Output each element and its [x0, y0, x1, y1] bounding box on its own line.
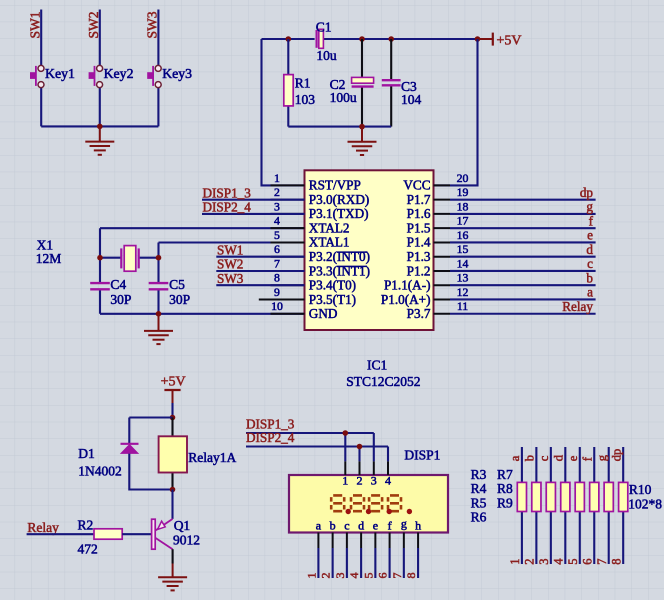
svg-text:10u: 10u: [316, 48, 337, 63]
display pin f stub: [389, 533, 391, 549]
pin 6 stub: [271, 256, 305, 258]
svg-text:6: 6: [274, 242, 280, 256]
svg-text:RST/VPP: RST/VPP: [309, 178, 361, 193]
svg-text:5: 5: [566, 559, 580, 565]
wire +5V to pin20: [434, 39, 478, 185]
power +5V relay: [164, 390, 180, 403]
wire DISP2_4 pin3: [202, 213, 305, 215]
wire crystal left vertical: [99, 228, 101, 314]
svg-text:Key2: Key2: [104, 66, 134, 81]
wire crystal right vertical: [157, 243, 159, 314]
transistor Q1: [152, 519, 173, 549]
display pin 4 stub: [387, 461, 389, 475]
wire SW1 net vertical: [40, 10, 42, 127]
svg-text:P3.0(RXD): P3.0(RXD): [309, 192, 369, 207]
switch SW3: [147, 65, 161, 87]
svg-text:6: 6: [580, 559, 594, 565]
node crystal right junction: [156, 255, 162, 261]
relay coil Relay1A: [159, 418, 187, 490]
svg-text:4: 4: [274, 214, 280, 228]
svg-text:Relay: Relay: [562, 299, 593, 314]
capacitor C1: [317, 29, 324, 48]
svg-text:7: 7: [595, 559, 609, 565]
svg-text:IC1: IC1: [367, 358, 387, 373]
ground crystal: [144, 331, 173, 344]
display pin b stub: [332, 533, 334, 549]
svg-text:P1.7: P1.7: [407, 192, 431, 207]
pin 7 stub: [271, 270, 305, 272]
svg-text:8: 8: [404, 573, 418, 579]
display pin 1 stub: [344, 461, 346, 475]
svg-text:R4: R4: [471, 481, 487, 496]
wire SW3 net vertical: [157, 10, 159, 127]
svg-text:dp: dp: [609, 449, 623, 462]
svg-text:10: 10: [271, 299, 283, 313]
display pin g stub: [403, 533, 405, 549]
wire segment net 5: [374, 548, 376, 578]
wire relay to transistor: [171, 490, 173, 519]
svg-text:Relay: Relay: [27, 520, 59, 535]
svg-text:R8: R8: [497, 481, 513, 496]
wire DISP1_3 bottom: [246, 433, 374, 461]
svg-text:12: 12: [457, 285, 469, 299]
svg-text:GND: GND: [309, 306, 338, 321]
node power ground junction: [359, 124, 365, 130]
capacitor C4: [90, 283, 110, 289]
svg-text:SW1: SW1: [28, 12, 43, 39]
display pin c stub: [346, 533, 348, 549]
display DISP1 body: [289, 475, 448, 533]
svg-text:1: 1: [508, 559, 522, 565]
svg-text:c: c: [587, 256, 593, 271]
svg-text:R2: R2: [78, 518, 94, 533]
svg-text:1: 1: [274, 171, 280, 185]
svg-text:P3.7: P3.7: [407, 306, 431, 321]
svg-text:4: 4: [347, 573, 361, 579]
node crystal left junction: [97, 255, 103, 261]
svg-text:3: 3: [274, 199, 280, 213]
svg-text:dp: dp: [580, 185, 594, 200]
wire net b: [450, 284, 596, 286]
svg-text:Q1: Q1: [174, 518, 191, 533]
wire segment net 4: [360, 548, 362, 578]
svg-text:472: 472: [78, 542, 98, 557]
svg-text:R5: R5: [471, 495, 487, 510]
svg-text:2: 2: [522, 559, 536, 565]
wire net Relay: [450, 313, 596, 315]
node relay top junction: [170, 415, 176, 421]
svg-text:d: d: [358, 519, 364, 533]
svg-text:C1: C1: [316, 20, 332, 35]
svg-text:SW1: SW1: [217, 242, 243, 257]
svg-text:2: 2: [319, 573, 333, 579]
svg-text:2: 2: [274, 185, 280, 199]
svg-text:R1: R1: [295, 76, 311, 91]
wire resistor column 5: [579, 447, 581, 564]
svg-text:100u: 100u: [330, 90, 357, 105]
wire net f: [450, 227, 596, 229]
svg-text:102*8: 102*8: [628, 497, 662, 512]
node key bus junction: [97, 124, 103, 130]
node relay bottom junction: [170, 487, 176, 493]
wire net a: [450, 298, 596, 300]
svg-text:d: d: [586, 242, 593, 257]
svg-text:SW3: SW3: [217, 271, 244, 286]
wire resistor column 7: [608, 447, 610, 564]
svg-text:c: c: [344, 519, 349, 533]
wire SW2 net vertical: [99, 10, 101, 127]
svg-text:1: 1: [305, 573, 319, 579]
svg-text:SW2: SW2: [86, 12, 101, 39]
svg-text:R7: R7: [497, 467, 513, 482]
resistor R4: [532, 482, 541, 511]
wire segment net 7: [403, 548, 405, 578]
pin 17 stub: [434, 227, 451, 229]
wire +5V rail: [262, 38, 478, 40]
svg-text:e: e: [566, 455, 580, 461]
svg-text:R3: R3: [471, 467, 487, 482]
overline INT1: [337, 265, 367, 267]
wire +5V down: [171, 403, 173, 418]
svg-text:DISP2_4: DISP2_4: [246, 430, 295, 445]
wire segment net 1: [317, 548, 319, 578]
svg-text:3: 3: [333, 573, 347, 579]
switch SW2: [89, 65, 103, 87]
svg-text:D1: D1: [78, 446, 95, 461]
svg-text:4: 4: [385, 474, 391, 488]
svg-text:P1.3: P1.3: [407, 249, 431, 264]
wire resistor column 6: [593, 447, 595, 564]
svg-text:5: 5: [274, 228, 280, 242]
pin 5 stub: [271, 241, 305, 243]
wire resistor column 1: [521, 447, 523, 564]
pin 12 stub: [434, 298, 451, 300]
svg-text:30P: 30P: [110, 292, 131, 307]
display pin h stub: [417, 533, 419, 549]
svg-text:12M: 12M: [36, 251, 62, 266]
svg-text:P1.5: P1.5: [407, 220, 431, 235]
svg-text:20: 20: [457, 171, 469, 185]
svg-text:a: a: [508, 455, 522, 461]
pin 3 stub: [271, 213, 305, 215]
svg-text:P3.2(INT0): P3.2(INT0): [309, 249, 370, 264]
svg-text:e: e: [587, 228, 593, 243]
switch SW1: [30, 65, 44, 87]
svg-text:1N4002: 1N4002: [78, 464, 122, 479]
svg-text:f: f: [589, 213, 594, 228]
svg-text:11: 11: [457, 299, 468, 313]
svg-text:g: g: [401, 517, 407, 531]
pin 13 stub: [434, 284, 451, 286]
svg-text:h: h: [415, 519, 421, 533]
wire ground stem transistor: [172, 564, 174, 578]
op IC1 body: [305, 170, 434, 330]
svg-text:c: c: [537, 455, 551, 461]
wire ground stem crystal: [158, 314, 160, 331]
wire resistor column 3: [550, 447, 552, 564]
wire SW2 pin7: [216, 270, 304, 272]
wire key common bus: [41, 125, 158, 127]
diode D1: [121, 444, 139, 454]
svg-text:Relay1A: Relay1A: [188, 450, 236, 465]
display decimal points: [346, 509, 351, 514]
svg-text:14: 14: [457, 256, 469, 270]
wire pin4 to crystal: [100, 227, 305, 229]
svg-text:f: f: [388, 519, 392, 533]
svg-text:DISP1_3: DISP1_3: [203, 185, 252, 200]
wire SW3 pin8: [216, 284, 304, 286]
resistor R1: [284, 39, 293, 127]
pin 1 stub: [271, 184, 305, 186]
svg-text:R9: R9: [497, 495, 513, 510]
svg-text:+5V: +5V: [497, 34, 522, 49]
svg-text:DISP2_4: DISP2_4: [203, 200, 252, 215]
node DISP2_4 junction: [357, 444, 363, 450]
svg-text:9012: 9012: [173, 533, 200, 548]
svg-text:P1.6: P1.6: [407, 206, 431, 221]
svg-text:P1.0(A+): P1.0(A+): [381, 292, 431, 307]
wire SW1 pin6: [216, 256, 304, 258]
pin 16 stub: [434, 241, 451, 243]
svg-text:XTAL1: XTAL1: [309, 235, 350, 250]
ground keys: [85, 142, 114, 155]
svg-text:8: 8: [609, 559, 623, 565]
node C2 top junction: [359, 36, 365, 42]
power +5V top: [479, 33, 493, 46]
svg-text:SW2: SW2: [217, 257, 243, 272]
display pin 2 stub: [359, 461, 361, 475]
svg-text:7: 7: [390, 573, 404, 579]
display pin a stub: [317, 533, 319, 549]
svg-text:P3.3(INT1): P3.3(INT1): [309, 263, 370, 278]
svg-text:18: 18: [457, 199, 469, 213]
overline INT0: [337, 251, 368, 253]
svg-text:P1.1(A-): P1.1(A-): [384, 278, 431, 293]
resistor R6: [561, 482, 570, 511]
svg-text:R10: R10: [629, 482, 652, 497]
wire collector down: [172, 549, 174, 563]
wire net c: [450, 270, 596, 272]
pin 18 stub: [434, 213, 451, 215]
pin 10 stub: [271, 313, 305, 315]
svg-text:103: 103: [295, 92, 316, 107]
svg-text:13: 13: [457, 271, 469, 285]
svg-text:P3.5(T1): P3.5(T1): [309, 292, 356, 307]
svg-text:+5V: +5V: [161, 375, 186, 390]
wire diode branch top: [129, 418, 172, 444]
svg-text:15: 15: [457, 242, 469, 256]
display pin d stub: [360, 533, 362, 549]
wire Relay net: [27, 533, 94, 535]
resistor R3: [517, 482, 526, 511]
display pin 3 stub: [373, 461, 375, 475]
wire net e: [450, 241, 596, 243]
svg-text:1: 1: [342, 474, 348, 488]
resistor R10: [619, 482, 628, 511]
svg-text:e: e: [373, 519, 378, 533]
pin 20 stub: [434, 184, 451, 186]
wire net d: [450, 256, 596, 258]
svg-text:2: 2: [357, 474, 363, 488]
resistor R2: [94, 529, 152, 539]
node DISP1_3 junction: [343, 430, 349, 436]
resistor R8: [590, 482, 599, 511]
wire resistor column 2: [535, 447, 537, 564]
svg-text:SW3: SW3: [145, 11, 160, 38]
svg-text:DISP1: DISP1: [404, 448, 440, 463]
wire pin5 to crystal: [159, 241, 305, 243]
svg-text:R6: R6: [471, 510, 487, 525]
wire net g: [450, 213, 596, 215]
wire ground stem keys: [99, 126, 101, 141]
svg-text:VCC: VCC: [403, 178, 430, 193]
svg-text:Key1: Key1: [45, 66, 75, 81]
node C3 top junction: [388, 36, 394, 42]
svg-text:d: d: [551, 454, 565, 461]
svg-text:C4: C4: [110, 277, 126, 292]
svg-text:16: 16: [457, 228, 469, 242]
pin 2 stub: [271, 199, 305, 201]
svg-text:17: 17: [457, 214, 469, 228]
wire power bottom rail: [288, 126, 391, 128]
wire resistor column 4: [564, 447, 566, 564]
capacitor C3: [382, 39, 401, 127]
ground power: [348, 142, 377, 155]
pin 14 stub: [434, 270, 451, 272]
resistor R7: [575, 482, 584, 511]
svg-text:a: a: [316, 519, 322, 533]
svg-text:19: 19: [457, 185, 469, 199]
node +5V junction top: [475, 36, 481, 42]
svg-text:P3.1(TXD): P3.1(TXD): [309, 206, 369, 221]
svg-text:C5: C5: [169, 277, 185, 292]
pin 11 stub: [434, 313, 451, 315]
svg-text:104: 104: [401, 92, 422, 107]
svg-text:g: g: [586, 199, 593, 214]
pin 9 stub: [259, 298, 305, 300]
capacitor C5: [149, 283, 169, 289]
svg-text:9: 9: [274, 285, 280, 299]
wire DISP1_3 pin2: [202, 199, 305, 201]
svg-text:b: b: [522, 455, 536, 461]
pin 8 stub: [271, 284, 305, 286]
wire crystal bottom rail: [100, 313, 305, 315]
resistor R5: [546, 482, 555, 511]
svg-text:P1.2: P1.2: [407, 263, 431, 278]
svg-text:4: 4: [551, 558, 565, 565]
svg-text:3: 3: [371, 474, 377, 488]
svg-text:STC12C2052: STC12C2052: [346, 374, 420, 389]
ground transistor: [158, 577, 187, 590]
svg-text:Key3: Key3: [162, 66, 192, 81]
wire net dp: [450, 199, 596, 201]
wire segment net 8: [417, 548, 419, 578]
svg-text:a: a: [587, 285, 593, 300]
wire resistor column 8: [622, 447, 624, 564]
pin 15 stub: [434, 256, 451, 258]
svg-text:b: b: [330, 519, 336, 533]
wire segment net 6: [389, 548, 391, 578]
crystal X1: [121, 246, 138, 272]
svg-text:P3.4(T0): P3.4(T0): [309, 278, 356, 293]
pin 19 stub: [434, 199, 451, 201]
svg-text:6: 6: [376, 573, 390, 579]
wire segment net 3: [346, 548, 348, 578]
svg-text:b: b: [586, 270, 593, 285]
svg-text:g: g: [595, 454, 609, 461]
display pin e stub: [374, 533, 376, 549]
display digits 8.8.8.8.: [331, 495, 401, 511]
wire DISP2_4 bottom: [246, 447, 388, 462]
pin 4 stub: [271, 227, 305, 229]
node crystal ground junction: [156, 311, 162, 317]
wire segment net 2: [332, 548, 334, 578]
svg-text:8: 8: [274, 271, 280, 285]
resistor R9: [604, 482, 613, 511]
wire ground stem power: [361, 127, 363, 142]
svg-text:7: 7: [274, 256, 280, 270]
wire diode branch bottom: [129, 454, 172, 490]
capacitor C2: [352, 39, 374, 127]
svg-text:XTAL2: XTAL2: [309, 220, 350, 235]
wire crystal horizontal: [100, 257, 159, 259]
svg-text:30P: 30P: [169, 292, 190, 307]
svg-text:5: 5: [361, 573, 375, 579]
svg-text:3: 3: [537, 559, 551, 565]
svg-text:P1.4: P1.4: [407, 235, 431, 250]
node R1 top junction: [286, 36, 292, 42]
wire rail to pin1: [262, 39, 305, 185]
